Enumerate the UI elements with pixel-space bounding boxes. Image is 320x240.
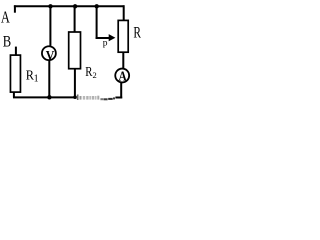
resistor R (rheostat)	[118, 20, 128, 52]
node top junction p	[95, 4, 99, 8]
wire p slider vertical	[96, 6, 98, 39]
svg-text:2: 2	[93, 70, 97, 80]
node bottom junction V	[47, 95, 52, 100]
wire R2 top lead	[74, 6, 76, 32]
svg-text:R: R	[133, 25, 141, 42]
wire p slider horizontal	[96, 37, 110, 39]
voltmeter V	[42, 46, 56, 60]
svg-text:A: A	[119, 68, 127, 83]
wire R top lead	[123, 5, 125, 21]
svg-text:A: A	[1, 7, 11, 26]
wire bottom bus right	[115, 97, 122, 99]
resistor R2	[69, 32, 81, 69]
arrowhead p wiper	[109, 34, 116, 41]
wire bottom bus left	[13, 96, 77, 98]
wire R2 bottom lead	[74, 69, 76, 98]
svg-text:1: 1	[34, 73, 39, 84]
wire top bus	[14, 5, 125, 7]
node top junction R2	[73, 4, 77, 8]
wire R bottom lead	[122, 52, 124, 69]
wire B to R1 top	[15, 47, 17, 56]
ammeter A	[115, 69, 129, 83]
wire R1 bottom lead	[13, 92, 15, 97]
svg-text:B: B	[3, 34, 11, 51]
node bottom junction R2	[73, 95, 77, 99]
wire ammeter bottom lead	[120, 82, 122, 98]
wire voltmeter top lead	[49, 6, 51, 46]
wire voltmeter bottom lead	[48, 60, 50, 97]
wire terminal A stub	[14, 5, 16, 12]
watermark faint glyphs	[77, 95, 115, 101]
node top junction V	[48, 4, 52, 8]
svg-text:R: R	[85, 64, 92, 79]
svg-text:p: p	[103, 39, 108, 49]
resistor R1	[10, 55, 20, 92]
